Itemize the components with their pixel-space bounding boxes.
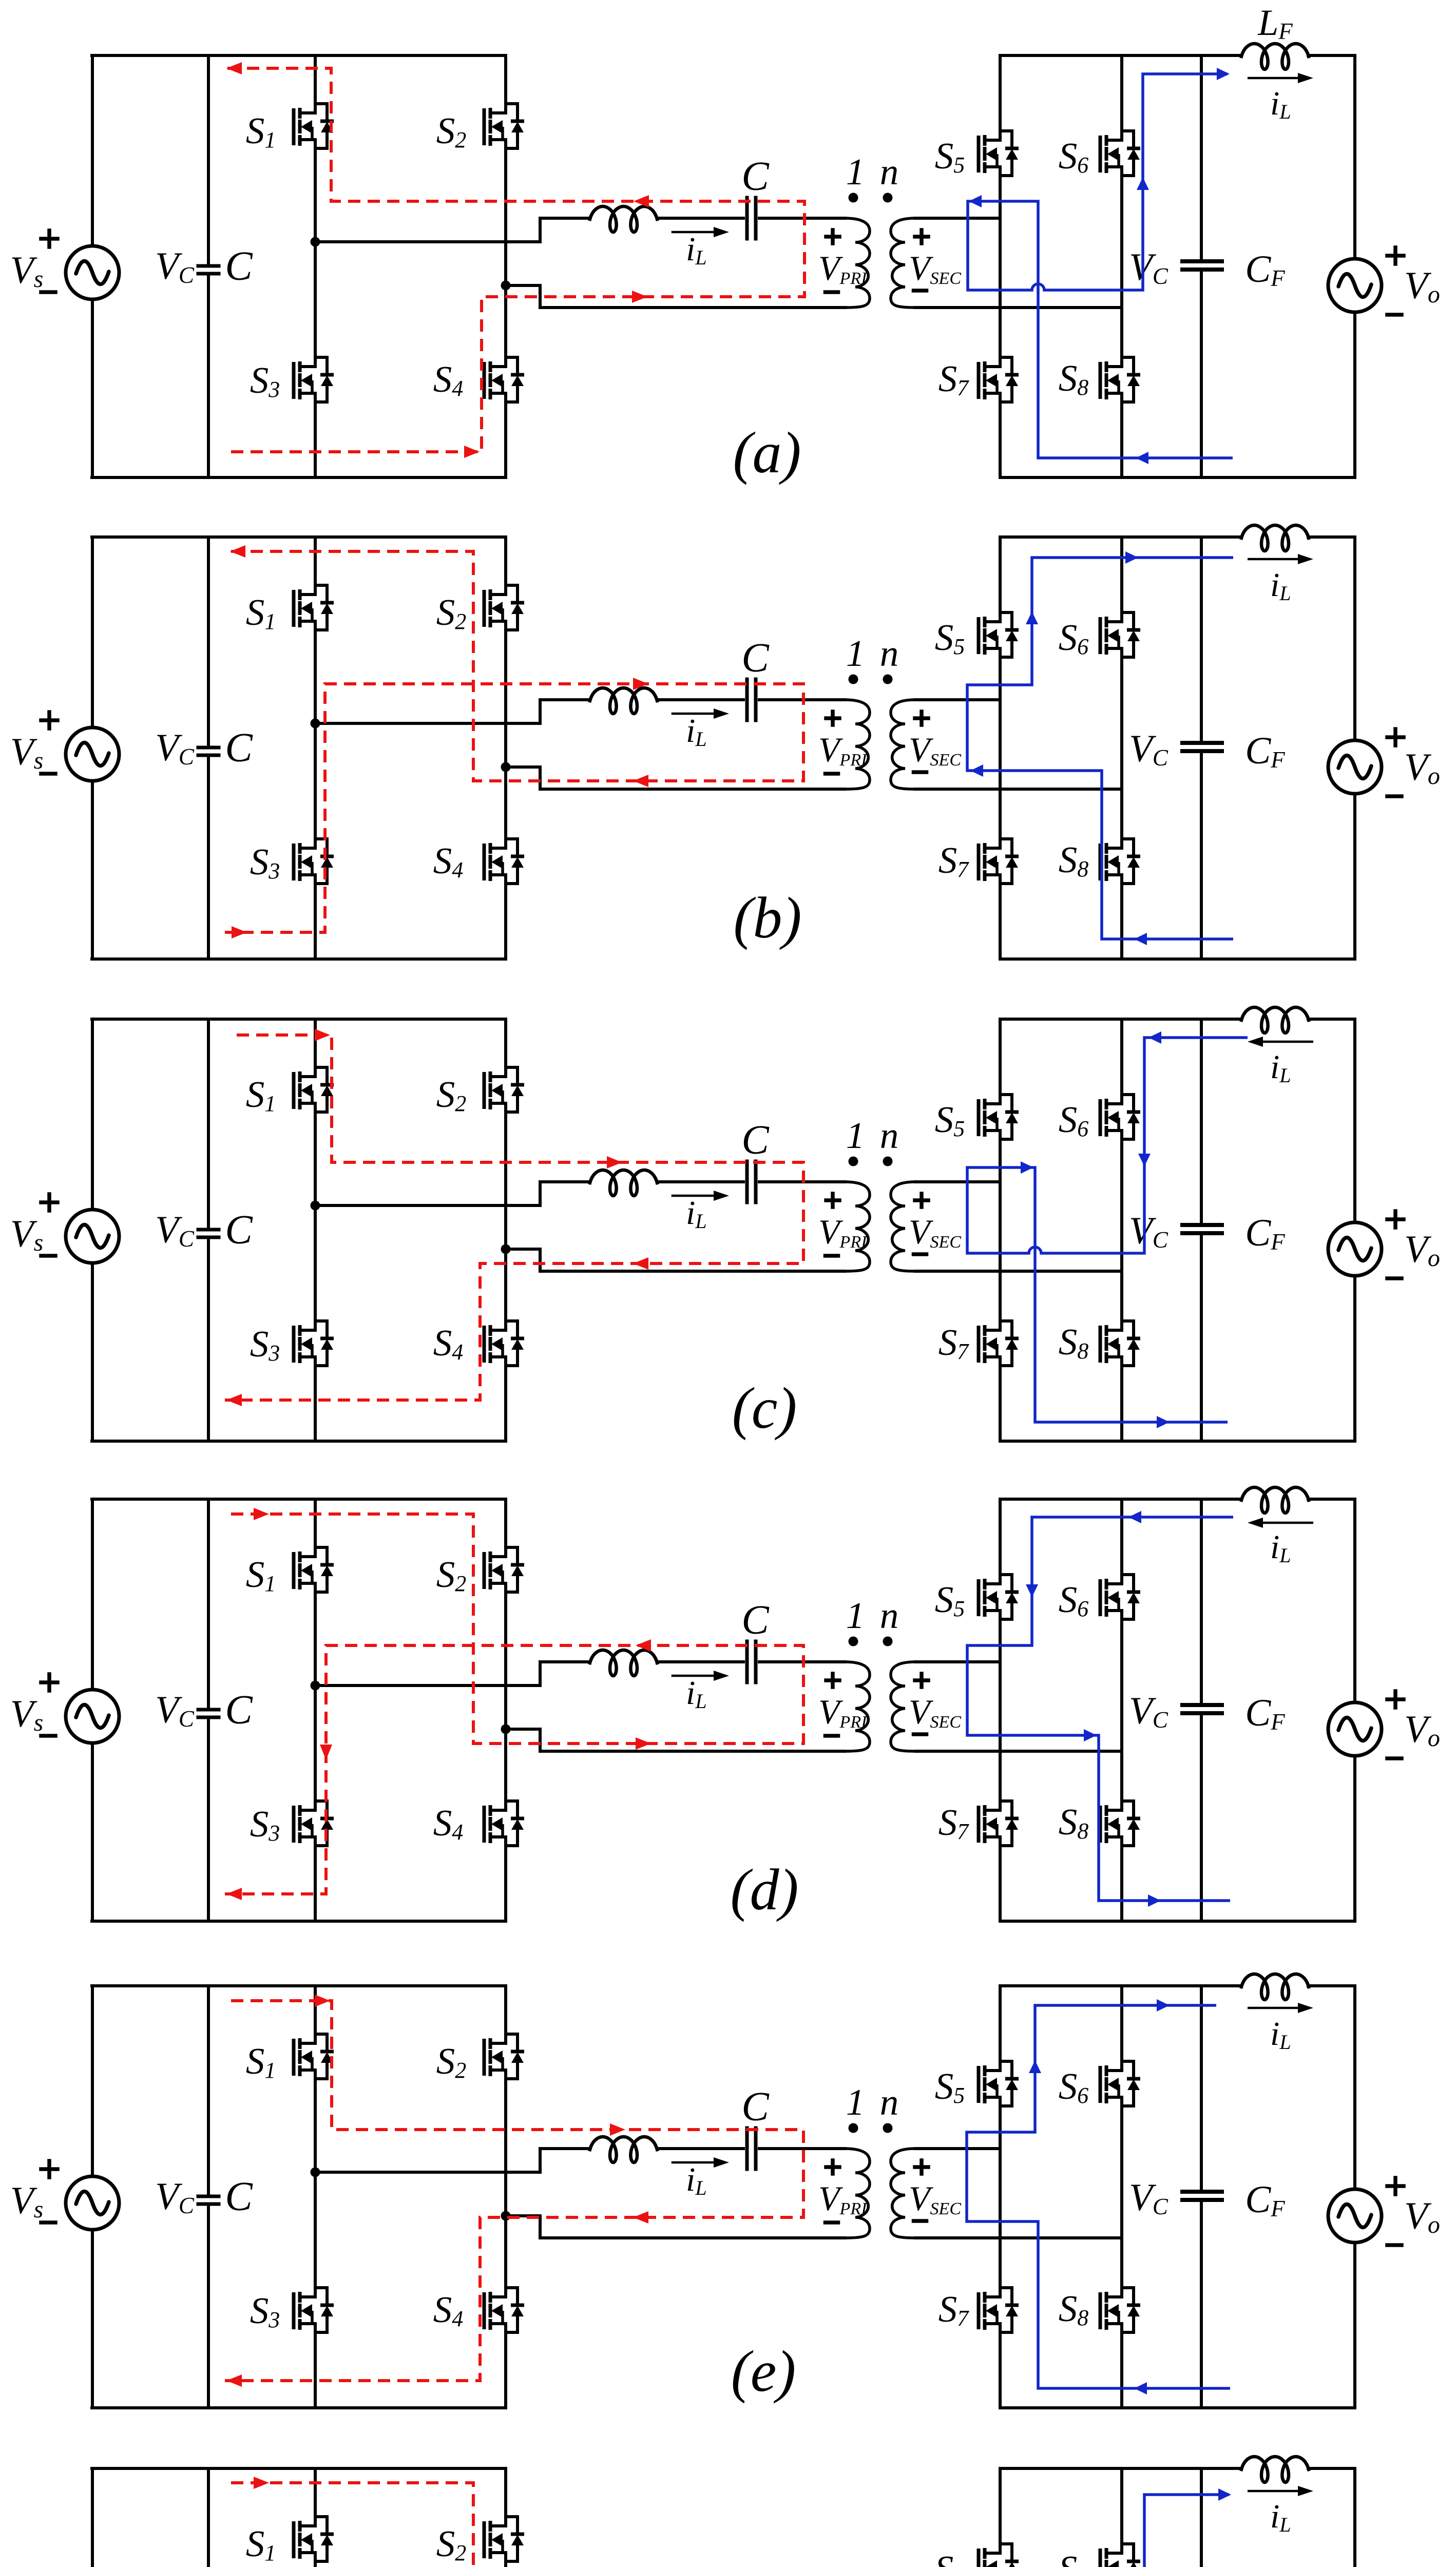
circuit (b) base (10, 525, 1440, 959)
svg-text:(b): (b) (734, 885, 802, 950)
arrow iL output (c) (1262, 1041, 1313, 1043)
blue current path (b) (967, 558, 1233, 939)
blue current path (c) (967, 1038, 1248, 1422)
circuit (f) base (10, 2457, 1440, 2567)
arrow iL output (b) (1248, 558, 1299, 561)
svg-text:(e): (e) (731, 2339, 796, 2404)
red current path (d) (225, 1514, 803, 1894)
svg-text:(d): (d) (731, 1857, 799, 1922)
arrow iL output (f) (1248, 2490, 1299, 2493)
blue current path (e) (967, 2005, 1230, 2388)
arrow iL output (d) (1262, 1522, 1313, 1524)
svg-text:(a): (a) (733, 420, 801, 485)
circuit (a) base (10, 44, 1440, 477)
red current path (b) (225, 551, 803, 932)
red current path (f) (225, 2483, 803, 2567)
circuit (e) base (10, 1974, 1440, 2408)
red current path (c) (225, 1035, 803, 1400)
svg-text:LF: LF (1257, 2, 1293, 44)
circuit (d) base (10, 1487, 1440, 1921)
svg-text:(c): (c) (732, 1375, 797, 1441)
blue current path (d) (967, 1517, 1233, 1901)
circuit (c) base (10, 1007, 1440, 1441)
label LF (1257, 2, 1293, 44)
arrow iL output (a) (1248, 77, 1299, 80)
red current path (a) (227, 68, 804, 452)
blue current path (a) (968, 74, 1233, 458)
arrow iL output (e) (1248, 2007, 1299, 2009)
blue current path (f) (967, 2495, 1233, 2567)
red current path (e) (225, 2001, 803, 2381)
